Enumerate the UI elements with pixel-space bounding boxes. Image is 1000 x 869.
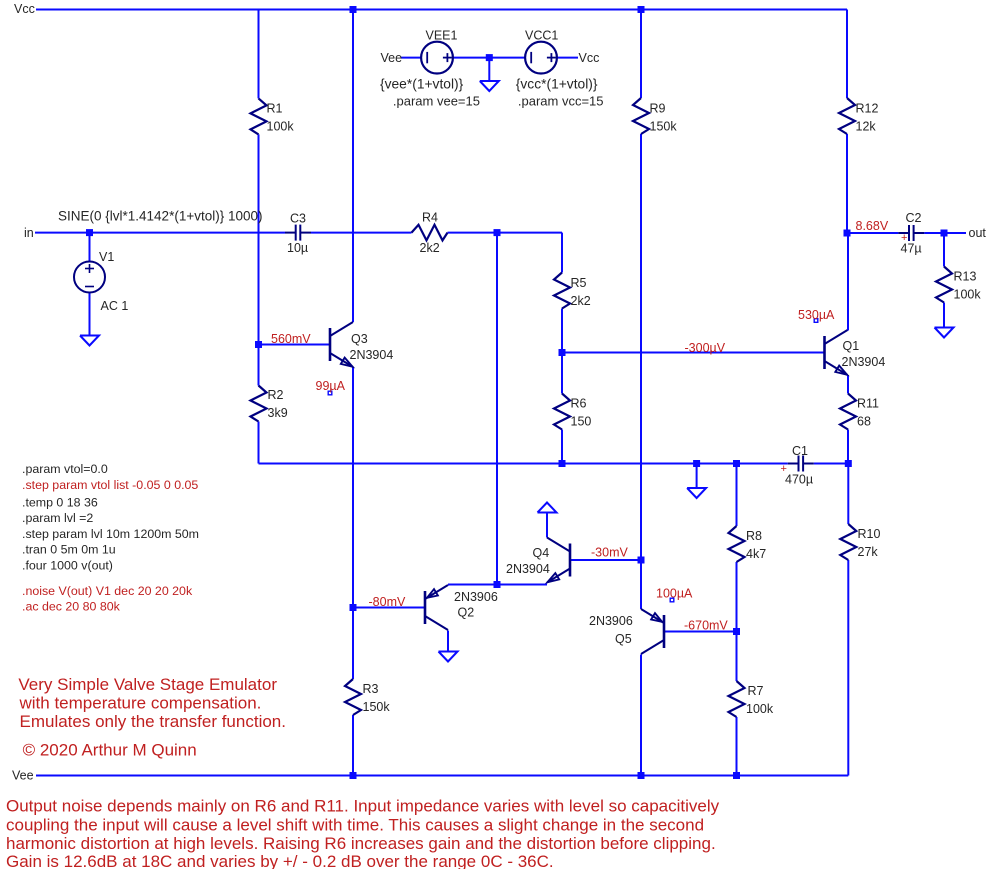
svg-text:Emulates only the transfer fun: Emulates only the transfer function.	[20, 712, 286, 731]
svg-text:harmonic distortion at high le: harmonic distortion at high levels. Rais…	[6, 834, 716, 853]
svg-text:R5: R5	[571, 276, 587, 290]
svg-text:© 2020 Arthur M Quinn: © 2020 Arthur M Quinn	[23, 740, 197, 759]
svg-text:530µA: 530µA	[798, 308, 835, 322]
svg-text:R11: R11	[857, 397, 879, 411]
svg-text:2k2: 2k2	[571, 294, 591, 308]
svg-text:Q5: Q5	[615, 632, 632, 646]
svg-text:150k: 150k	[363, 700, 391, 714]
svg-text:SINE(0 {lvl*1.4142*(1+vtol)} 1: SINE(0 {lvl*1.4142*(1+vtol)} 1000)	[58, 209, 263, 224]
svg-text:.tran 0 5m 0m 1u: .tran 0 5m 0m 1u	[22, 543, 116, 557]
svg-text:V1: V1	[99, 250, 114, 264]
svg-text:R9: R9	[650, 102, 666, 116]
svg-text:Vcc: Vcc	[14, 2, 35, 16]
svg-text:150: 150	[571, 415, 592, 429]
svg-text:R3: R3	[363, 682, 379, 696]
svg-text:Vcc: Vcc	[579, 51, 600, 65]
svg-text:C2: C2	[906, 211, 922, 225]
svg-text:{vee*(1+vtol)}: {vee*(1+vtol)}	[380, 77, 464, 92]
svg-text:560mV: 560mV	[271, 332, 311, 346]
svg-text:2N3906: 2N3906	[589, 614, 633, 628]
svg-text:100k: 100k	[267, 120, 295, 134]
svg-text:R2: R2	[268, 388, 284, 402]
svg-text:470µ: 470µ	[785, 473, 813, 487]
svg-text:2N3904: 2N3904	[842, 355, 886, 369]
svg-text:12k: 12k	[856, 120, 877, 134]
svg-text:8.68V: 8.68V	[856, 219, 889, 233]
svg-text:27k: 27k	[858, 545, 879, 559]
svg-text:R7: R7	[748, 684, 764, 698]
svg-text:VCC1: VCC1	[525, 29, 558, 43]
svg-text:.noise V(out) V1 dec 20 20 20k: .noise V(out) V1 dec 20 20 20k	[22, 584, 193, 598]
svg-text:2N3906: 2N3906	[454, 590, 498, 604]
svg-text:68: 68	[857, 415, 871, 429]
svg-text:100k: 100k	[746, 702, 774, 716]
svg-text:.step param vtol list -0.05 0: .step param vtol list -0.05 0 0.05	[22, 478, 198, 492]
svg-text:VEE1: VEE1	[426, 29, 458, 43]
svg-text:with temperature compensation.: with temperature compensation.	[19, 694, 262, 713]
svg-text:-80mV: -80mV	[369, 595, 406, 609]
svg-text:R6: R6	[571, 397, 587, 411]
svg-text:100k: 100k	[954, 288, 982, 302]
svg-text:99µA: 99µA	[316, 379, 346, 393]
svg-text:4k7: 4k7	[746, 547, 766, 561]
svg-text:Very Simple Valve Stage Emulat: Very Simple Valve Stage Emulator	[18, 675, 277, 694]
svg-text:-670mV: -670mV	[684, 619, 728, 633]
svg-text:.param vcc=15: .param vcc=15	[518, 94, 604, 109]
svg-text:coupling the input will cause: coupling the input will cause a level sh…	[6, 816, 704, 835]
svg-text:Q4: Q4	[533, 546, 550, 560]
svg-text:+: +	[781, 463, 787, 475]
svg-text:.param vee=15: .param vee=15	[393, 94, 480, 109]
svg-text:R8: R8	[746, 529, 762, 543]
svg-text:-30mV: -30mV	[591, 546, 628, 560]
svg-text:.param lvl =2: .param lvl =2	[22, 511, 93, 525]
svg-text:2N3904: 2N3904	[506, 562, 550, 576]
svg-text:Vee: Vee	[12, 769, 34, 783]
svg-text:R12: R12	[856, 102, 879, 116]
svg-text:Vee: Vee	[381, 51, 403, 65]
svg-text:C1: C1	[792, 444, 808, 458]
svg-text:150k: 150k	[650, 120, 678, 134]
svg-text:AC 1: AC 1	[101, 299, 129, 313]
svg-text:-300µV: -300µV	[685, 341, 726, 355]
svg-text:.temp 0 18 36: .temp 0 18 36	[22, 496, 98, 510]
svg-text:2k2: 2k2	[420, 241, 440, 255]
svg-text:.param vtol=0.0: .param vtol=0.0	[22, 462, 108, 476]
svg-text:R13: R13	[954, 270, 977, 284]
svg-text:{vcc*(1+vtol)}: {vcc*(1+vtol)}	[516, 77, 598, 92]
svg-text:Output noise depends mainly on: Output noise depends mainly on R6 and R1…	[6, 797, 720, 816]
svg-text:Gain is 12.6dB at 18C and vari: Gain is 12.6dB at 18C and varies by +/ -…	[6, 852, 554, 869]
svg-text:.step param lvl 10m 1200m 50m: .step param lvl 10m 1200m 50m	[22, 527, 199, 541]
svg-text:10µ: 10µ	[287, 241, 308, 255]
svg-text:out: out	[969, 226, 987, 240]
svg-text:R10: R10	[858, 527, 881, 541]
svg-text:C3: C3	[290, 212, 306, 226]
svg-text:2N3904: 2N3904	[350, 348, 394, 362]
svg-text:Q2: Q2	[458, 606, 475, 620]
svg-text:Q3: Q3	[351, 332, 368, 346]
svg-text:100µA: 100µA	[656, 587, 693, 601]
svg-text:+: +	[901, 232, 907, 244]
svg-text:R1: R1	[267, 102, 283, 116]
svg-text:.ac dec 20 80 80k: .ac dec 20 80 80k	[22, 600, 121, 614]
svg-text:Q1: Q1	[843, 339, 860, 353]
svg-text:R4: R4	[422, 211, 438, 225]
svg-text:.four 1000 v(out): .four 1000 v(out)	[22, 559, 113, 573]
svg-text:in: in	[24, 226, 34, 240]
svg-text:3k9: 3k9	[268, 406, 288, 420]
